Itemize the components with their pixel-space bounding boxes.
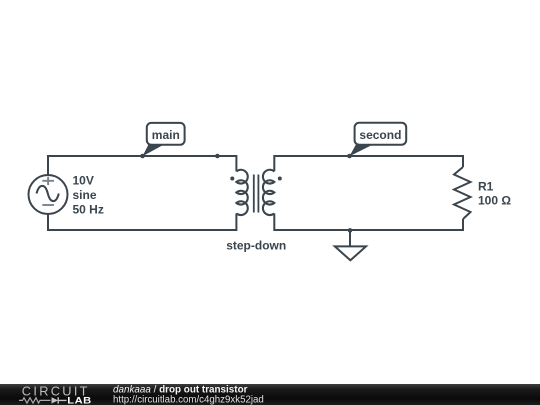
svg-text:http://circuitlab.com/c4ghz9xk: http://circuitlab.com/c4ghz9xk52jad bbox=[113, 394, 264, 405]
ground symbol stub bbox=[349, 230, 351, 246]
svg-text:50 Hz: 50 Hz bbox=[73, 203, 104, 217]
voltage source V1 plus sign bbox=[42, 177, 54, 185]
voltage source V1 circle bbox=[29, 175, 68, 214]
resistor R1 zigzag bbox=[454, 167, 471, 219]
voltage source V1 sine waveform bbox=[37, 186, 59, 201]
transformer T1 secondary phase dot bbox=[278, 177, 282, 181]
node dot: ground junction bbox=[348, 228, 353, 233]
wire: bottom-left return from transformer primary to source bbox=[48, 213, 236, 230]
net label callout: main tail bbox=[143, 143, 165, 157]
footer logo wire with resistor squiggle bbox=[19, 398, 51, 403]
svg-text:sine: sine bbox=[73, 188, 97, 202]
svg-text:R1: R1 bbox=[478, 180, 494, 194]
node dot: main label attach bbox=[140, 154, 145, 159]
ground symbol triangle bbox=[335, 246, 366, 260]
wire: top-left net (main) from source to transformer primary bbox=[48, 156, 236, 175]
node dot: second label attach bbox=[347, 154, 352, 159]
voltage source V1 minus sign bbox=[42, 204, 54, 206]
net label callout: second tail bbox=[350, 143, 374, 157]
net label callout: second box bbox=[355, 123, 407, 145]
transformer T1 core lines bbox=[254, 175, 259, 213]
wire: bottom-right return from R1 to transformer secondary bbox=[274, 213, 463, 230]
net label callout: main box bbox=[147, 123, 185, 145]
transformer T1 primary phase dot bbox=[230, 177, 234, 181]
svg-text:step-down: step-down bbox=[226, 238, 286, 252]
svg-text:main: main bbox=[152, 128, 180, 142]
transformer T1 primary winding bbox=[236, 170, 247, 215]
transformer T1 secondary winding bbox=[263, 170, 274, 215]
svg-text:LAB: LAB bbox=[67, 396, 91, 405]
svg-text:10V: 10V bbox=[73, 174, 94, 188]
svg-text:100 Ω: 100 Ω bbox=[478, 194, 511, 208]
svg-text:second: second bbox=[359, 128, 401, 142]
wire: top-right net (second) from transformer secondary to R1 bbox=[274, 156, 463, 171]
value label: 10V sine 50 Hz bbox=[73, 174, 104, 217]
footer bar bbox=[0, 384, 540, 405]
node junction dot on top-left wire bbox=[215, 154, 220, 159]
footer logo diode symbol bbox=[52, 397, 59, 403]
